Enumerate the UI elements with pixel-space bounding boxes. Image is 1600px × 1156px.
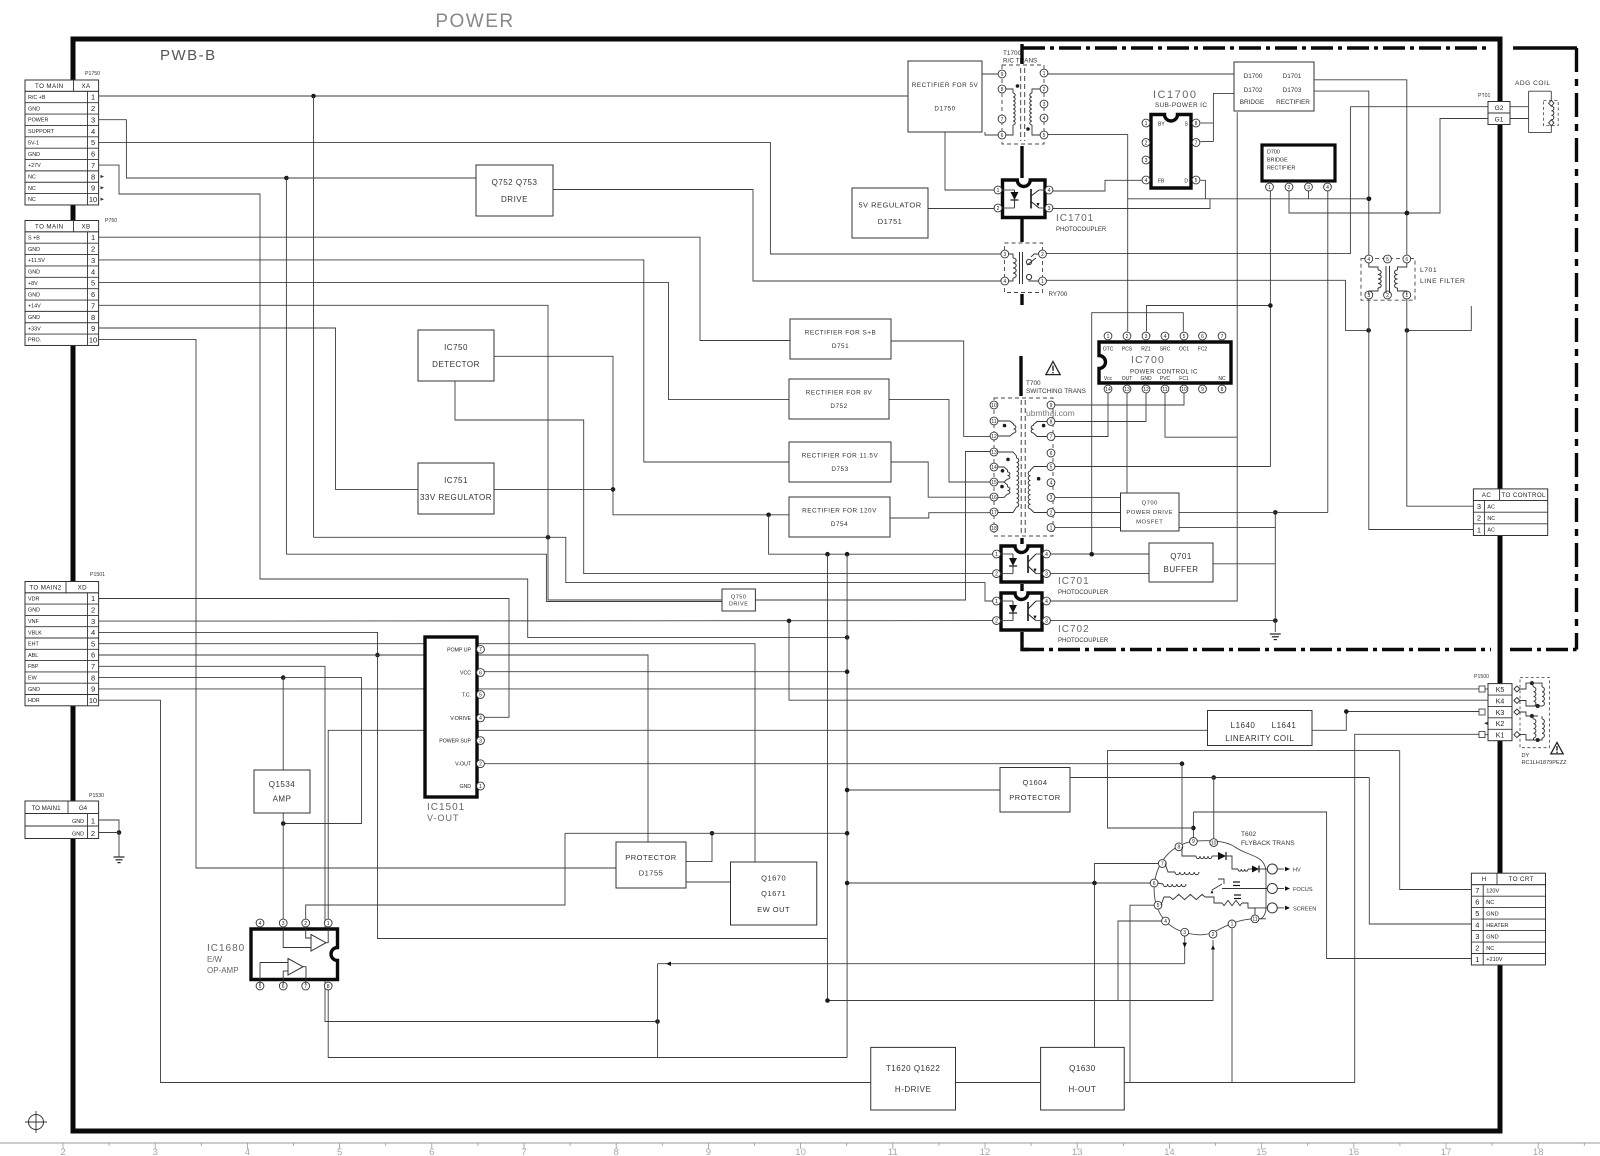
wire IC700 pin13 down bbox=[1126, 393, 1128, 493]
svg-text:DETECTOR: DETECTOR bbox=[432, 360, 480, 369]
IC701 photocoupler bbox=[1001, 546, 1042, 582]
wire XA9 NC stub bbox=[101, 186, 105, 189]
T1620 Q1622 H-DRIVE box bbox=[871, 1047, 956, 1110]
protector D1755 box bbox=[616, 842, 686, 888]
svg-text:1: 1 bbox=[1107, 334, 1110, 340]
svg-text:12: 12 bbox=[1143, 387, 1149, 393]
svg-text:AC: AC bbox=[1487, 504, 1495, 510]
svg-text:L1640: L1640 bbox=[1231, 721, 1256, 730]
svg-text:3: 3 bbox=[153, 1147, 158, 1156]
svg-text:D1702: D1702 bbox=[1244, 87, 1263, 94]
svg-text:2: 2 bbox=[1477, 514, 1481, 523]
wire XD7 FBP right bbox=[99, 666, 658, 1021]
Q1670 Q1671 EW OUT box bbox=[731, 862, 817, 925]
svg-text:2: 2 bbox=[91, 245, 95, 254]
wire RY700 pin1 right bbox=[1046, 280, 1369, 330]
svg-text:16: 16 bbox=[991, 495, 997, 501]
linearity coil L1640 L1641 box bbox=[1208, 711, 1313, 746]
wire G2 down to RY700 pin2 bbox=[1046, 107, 1350, 254]
svg-text:GND: GND bbox=[28, 687, 40, 693]
wire D1750 down to IC1701 bbox=[945, 132, 994, 190]
svg-text:3: 3 bbox=[1043, 102, 1046, 108]
svg-text:2: 2 bbox=[479, 762, 482, 768]
transistors Q752 Q753 DRIVE box bbox=[476, 165, 553, 216]
wire IC750 bottom to IC701 pin2 bbox=[455, 381, 993, 574]
svg-text:D1701: D1701 bbox=[1283, 73, 1302, 80]
svg-text:14: 14 bbox=[1164, 1147, 1175, 1156]
svg-text:RECTIFIER: RECTIFIER bbox=[1276, 99, 1310, 106]
svg-text:+33V: +33V bbox=[28, 326, 41, 332]
svg-text:10: 10 bbox=[1181, 387, 1187, 393]
svg-text:2: 2 bbox=[997, 206, 1000, 212]
svg-text:1: 1 bbox=[91, 93, 95, 102]
wire K2 stub bbox=[1484, 722, 1488, 725]
svg-text:4: 4 bbox=[259, 921, 262, 927]
svg-text:P1501: P1501 bbox=[90, 572, 105, 578]
isolation boundary dash-dot bottom bbox=[1022, 648, 1491, 651]
svg-text:GND: GND bbox=[28, 152, 40, 158]
svg-text:VNF: VNF bbox=[28, 619, 39, 625]
bottom ruler bbox=[0, 1142, 1600, 1144]
svg-text:PHOTOCOUPLER: PHOTOCOUPLER bbox=[1056, 227, 1107, 233]
svg-text:5: 5 bbox=[1475, 909, 1479, 918]
wire Q701 out right bbox=[1213, 563, 1275, 565]
svg-text:9: 9 bbox=[1001, 72, 1004, 78]
svg-text:HEATER: HEATER bbox=[1486, 923, 1508, 929]
svg-text:IC1501: IC1501 bbox=[427, 802, 465, 813]
svg-text:Q1534: Q1534 bbox=[269, 780, 296, 789]
svg-text:MOSFET: MOSFET bbox=[1136, 520, 1163, 526]
isolation boundary dash-dot right bbox=[1575, 48, 1578, 650]
wire K1 down to H-OUT bbox=[1124, 734, 1479, 1082]
wire IC750 out down bbox=[494, 356, 789, 515]
svg-text:FOCUS: FOCUS bbox=[1293, 887, 1313, 893]
svg-text:12: 12 bbox=[991, 434, 997, 440]
svg-text:3: 3 bbox=[91, 617, 95, 626]
wire vertical to flyback area bbox=[846, 554, 848, 1057]
svg-text:H-OUT: H-OUT bbox=[1069, 1085, 1097, 1094]
svg-text:OC1: OC1 bbox=[1179, 347, 1190, 353]
svg-text:IC702: IC702 bbox=[1058, 624, 1090, 635]
svg-text:9: 9 bbox=[1192, 839, 1195, 845]
svg-text:SWITCHING TRANS: SWITCHING TRANS bbox=[1026, 388, 1086, 395]
svg-text:BUFFER: BUFFER bbox=[1164, 565, 1199, 574]
svg-text:GND: GND bbox=[28, 315, 40, 321]
svg-text:2: 2 bbox=[60, 1147, 65, 1156]
svg-text:1: 1 bbox=[1050, 525, 1053, 531]
svg-text:3: 3 bbox=[1145, 158, 1148, 164]
wire flyback pin6 left bbox=[847, 882, 1150, 884]
svg-text:2: 2 bbox=[995, 571, 998, 577]
svg-text:PCS: PCS bbox=[1122, 347, 1133, 353]
svg-text:POWER: POWER bbox=[435, 11, 514, 32]
rectifier D1750 box bbox=[908, 61, 982, 132]
wire horizontal 1057 bbox=[658, 1057, 848, 1059]
svg-text:OTC: OTC bbox=[1103, 347, 1114, 353]
svg-text:5: 5 bbox=[259, 984, 262, 990]
svg-text:RY700: RY700 bbox=[1049, 291, 1068, 298]
svg-text:PVC: PVC bbox=[1160, 376, 1171, 382]
flyback pin11 wire bbox=[1248, 908, 1255, 915]
svg-text:OUT: OUT bbox=[1122, 376, 1133, 382]
wire L701 pin1 to AC3 bbox=[1407, 299, 1474, 506]
svg-text:FC1: FC1 bbox=[1179, 376, 1189, 382]
svg-text:7: 7 bbox=[1221, 334, 1224, 340]
svg-text:1: 1 bbox=[91, 233, 95, 242]
svg-text:DRIVE: DRIVE bbox=[501, 195, 528, 204]
svg-text:GND: GND bbox=[72, 819, 84, 825]
wire XA10 NC stub bbox=[101, 198, 105, 201]
svg-text:6: 6 bbox=[91, 651, 95, 660]
wire Q1630 up bbox=[1094, 883, 1096, 1047]
svg-text:K5: K5 bbox=[1496, 687, 1505, 694]
wire XB9 +33V to IC751 bbox=[99, 328, 418, 489]
svg-text:PHOTOCOUPLER: PHOTOCOUPLER bbox=[1058, 590, 1109, 596]
svg-text:POWER: POWER bbox=[28, 118, 48, 124]
svg-text:2: 2 bbox=[91, 829, 95, 838]
wire IC1701 pin4 to IC1700 FB bbox=[1053, 180, 1144, 191]
svg-text:5: 5 bbox=[337, 1147, 342, 1156]
svg-text:1: 1 bbox=[327, 921, 330, 927]
svg-text:7: 7 bbox=[91, 161, 95, 170]
svg-text:Q1671: Q1671 bbox=[761, 889, 786, 898]
svg-text:GND: GND bbox=[1486, 934, 1498, 940]
wire IC1680 pin8 down bbox=[328, 990, 657, 1058]
svg-text:7: 7 bbox=[1050, 434, 1053, 440]
svg-text:7: 7 bbox=[1001, 117, 1004, 123]
svg-text:EW OUT: EW OUT bbox=[757, 905, 790, 914]
wire heater to H4 bbox=[1369, 778, 1472, 925]
svg-text:K4: K4 bbox=[1496, 698, 1505, 705]
svg-text:D753: D753 bbox=[831, 466, 848, 473]
svg-text:18: 18 bbox=[1533, 1147, 1544, 1156]
svg-text:TO CONTROL: TO CONTROL bbox=[1501, 492, 1546, 499]
warning triangle T700 bbox=[1046, 362, 1060, 375]
wire XA1 R/C+B to D1750 bbox=[99, 95, 908, 97]
wire ADG G2 bbox=[1510, 106, 1529, 108]
svg-text:POWER DRIVE: POWER DRIVE bbox=[1126, 510, 1173, 516]
svg-text:POWER SUP: POWER SUP bbox=[439, 739, 471, 745]
svg-text:4: 4 bbox=[1048, 188, 1051, 194]
svg-text:3: 3 bbox=[1145, 334, 1148, 340]
svg-text:V-DRIVE: V-DRIVE bbox=[450, 716, 471, 722]
svg-text:17: 17 bbox=[1441, 1147, 1452, 1156]
wire IC1700 pin7 to bridge bbox=[1201, 141, 1214, 143]
svg-text:3: 3 bbox=[91, 115, 95, 124]
svg-text:Q1630: Q1630 bbox=[1069, 1064, 1096, 1073]
svg-text:11: 11 bbox=[888, 1147, 898, 1156]
svg-text:4: 4 bbox=[91, 267, 95, 276]
wire XB3 +11.5V to D753 bbox=[99, 260, 789, 462]
svg-text:4: 4 bbox=[1164, 334, 1167, 340]
flyback focus pot bbox=[1170, 894, 1205, 899]
svg-text:PHOTOCOUPLER: PHOTOCOUPLER bbox=[1058, 638, 1109, 644]
svg-text:10: 10 bbox=[89, 696, 97, 705]
wire Q700 out right bbox=[1179, 511, 1328, 513]
svg-text:RECTIFIER FOR 120V: RECTIFIER FOR 120V bbox=[802, 508, 877, 515]
wire flyback pin4 left bbox=[1118, 921, 1162, 1001]
ground P1530 bbox=[114, 856, 125, 858]
svg-text:RECTIFIER: RECTIFIER bbox=[1267, 166, 1296, 172]
wire XB5 +8V to D752 bbox=[99, 283, 789, 400]
svg-text:R/C +B: R/C +B bbox=[28, 95, 46, 101]
RY700 relay bbox=[1005, 243, 1043, 293]
wire flyback pin1 down bbox=[1231, 928, 1233, 1082]
svg-text:4: 4 bbox=[1145, 178, 1148, 184]
svg-text:4: 4 bbox=[1043, 116, 1046, 122]
svg-text:SUPPORT: SUPPORT bbox=[28, 129, 55, 135]
svg-text:5V REGULATOR: 5V REGULATOR bbox=[858, 200, 921, 209]
svg-text:13: 13 bbox=[1072, 1147, 1083, 1156]
wire H-DRIVE to H-OUT bbox=[956, 1082, 1041, 1084]
svg-text:6: 6 bbox=[1001, 133, 1004, 139]
wire flyback pin5 left bbox=[1130, 905, 1154, 1082]
isolation boundary vertical segments bbox=[1020, 44, 1023, 64]
svg-text:NC: NC bbox=[1487, 516, 1495, 522]
wire XD4 VBLK down bbox=[99, 632, 378, 655]
svg-text:6: 6 bbox=[91, 290, 95, 299]
wire D700 pin1 down bbox=[1269, 191, 1271, 467]
svg-text:5: 5 bbox=[1386, 257, 1389, 263]
wire flyback pin8 up bbox=[1181, 764, 1183, 843]
wire XB1 S+B to D751 bbox=[99, 237, 790, 340]
wire 120V branch bbox=[1108, 751, 1400, 828]
svg-text:FB: FB bbox=[1158, 179, 1165, 185]
svg-text:H: H bbox=[1482, 876, 1487, 883]
wire T1700 pin6 to D1750 bbox=[985, 132, 998, 135]
svg-text:BRIDGE: BRIDGE bbox=[1240, 99, 1265, 106]
wire D751 out to T700 pin12 bbox=[891, 341, 990, 436]
wire L701 pin1 branch bbox=[1407, 306, 1471, 330]
wire G2 line bbox=[1350, 106, 1488, 108]
T700 winding 15-16 bbox=[998, 482, 1008, 487]
wire POWER to Q750 bbox=[286, 554, 722, 601]
svg-text:6: 6 bbox=[1475, 898, 1479, 907]
wire T700 pin2 to Q700 bbox=[1055, 512, 1121, 514]
svg-text:7: 7 bbox=[91, 662, 95, 671]
bridge rectifier D700 box bbox=[1262, 145, 1335, 181]
svg-text:9: 9 bbox=[91, 324, 95, 333]
flyback HV coil and diode D2 bbox=[1238, 869, 1248, 871]
svg-text:D752: D752 bbox=[830, 403, 847, 410]
Q1534 AMP box bbox=[254, 770, 310, 813]
svg-text:NC: NC bbox=[28, 175, 36, 181]
svg-text:3: 3 bbox=[1475, 932, 1479, 941]
svg-text:Q700: Q700 bbox=[1142, 501, 1158, 507]
svg-text:D1703: D1703 bbox=[1283, 87, 1302, 94]
svg-text:2: 2 bbox=[1475, 943, 1479, 952]
svg-text:14: 14 bbox=[991, 465, 997, 471]
svg-text:2: 2 bbox=[995, 618, 998, 624]
wire IC751 out bbox=[494, 488, 613, 490]
wire Q1604 branch down flyback pin10 bbox=[1213, 778, 1215, 839]
wire riser into bridge bbox=[1213, 93, 1234, 141]
svg-text:+11.5V: +11.5V bbox=[28, 258, 45, 264]
wire IC1700 S to bridge bbox=[1201, 122, 1214, 124]
wire K1 connector square bbox=[1479, 732, 1485, 738]
wire XB10 PRO down bbox=[99, 339, 616, 868]
svg-text:1: 1 bbox=[479, 784, 482, 790]
wire IC700 pin11 down bbox=[1165, 393, 1237, 438]
wire T700 pin3 to Q700 bbox=[1055, 496, 1121, 498]
svg-text:SUB-POWER IC: SUB-POWER IC bbox=[1155, 102, 1207, 109]
svg-text:GND: GND bbox=[28, 608, 40, 614]
svg-text:RECTIFIER FOR 11.5V: RECTIFIER FOR 11.5V bbox=[802, 453, 879, 460]
svg-text:1: 1 bbox=[1268, 185, 1271, 191]
wire T700 pin5 right bbox=[1055, 466, 1271, 468]
flyback secondary coils bbox=[1175, 872, 1199, 875]
svg-text:LINE FILTER: LINE FILTER bbox=[1420, 278, 1465, 285]
svg-text:PROTECTOR: PROTECTOR bbox=[1009, 793, 1061, 802]
svg-text:6: 6 bbox=[91, 150, 95, 159]
svg-text:T.C.: T.C. bbox=[462, 693, 471, 699]
svg-text:GND: GND bbox=[459, 784, 471, 790]
svg-text:FBP: FBP bbox=[28, 664, 39, 670]
svg-text:Q752 Q753: Q752 Q753 bbox=[492, 178, 538, 187]
svg-text:EHT: EHT bbox=[28, 642, 39, 648]
op-amp U1A triangle bbox=[311, 935, 326, 952]
svg-text:5: 5 bbox=[1195, 178, 1198, 184]
svg-text:4: 4 bbox=[1045, 552, 1048, 558]
svg-text:1: 1 bbox=[997, 188, 1000, 194]
wire line 937 bbox=[378, 655, 828, 939]
svg-text:7: 7 bbox=[1475, 886, 1479, 895]
svg-text:5: 5 bbox=[1050, 464, 1053, 470]
svg-text:7: 7 bbox=[1161, 861, 1164, 867]
wire T700 pin9 to IC700 FC1 bbox=[1055, 393, 1184, 405]
svg-text:IC1680: IC1680 bbox=[207, 943, 245, 954]
svg-text:11: 11 bbox=[1162, 387, 1167, 393]
svg-text:4: 4 bbox=[1367, 257, 1370, 263]
wire IC700 pin5 up left down bbox=[1092, 313, 1184, 555]
svg-text:HV: HV bbox=[1293, 868, 1301, 874]
svg-text:VCC: VCC bbox=[460, 671, 471, 677]
svg-text:3: 3 bbox=[1045, 618, 1048, 624]
svg-text:9: 9 bbox=[91, 685, 95, 694]
svg-text:1: 1 bbox=[91, 817, 95, 826]
svg-text:T1620 Q1622: T1620 Q1622 bbox=[886, 1064, 940, 1073]
svg-text:8: 8 bbox=[327, 984, 330, 990]
svg-text:G4: G4 bbox=[79, 805, 88, 812]
svg-text:R/C TRANS: R/C TRANS bbox=[1003, 58, 1037, 65]
svg-text:2: 2 bbox=[1043, 87, 1046, 93]
svg-text:Q750: Q750 bbox=[731, 594, 747, 600]
wire IC1680 pin1 up to linearity coil bbox=[328, 730, 1207, 919]
flyback capacitors bbox=[1233, 881, 1240, 883]
svg-text:ABL: ABL bbox=[28, 653, 38, 659]
connector AC TO CONTROL bbox=[1473, 489, 1547, 536]
flyback SCREEN output bbox=[1267, 903, 1277, 913]
svg-text:IC751: IC751 bbox=[444, 476, 468, 485]
svg-text:VBLK: VBLK bbox=[28, 630, 42, 636]
svg-text:FC2: FC2 bbox=[1198, 347, 1208, 353]
wire XD5 EHT to EW OUT top bbox=[99, 644, 755, 862]
wire XA1 branch down bbox=[313, 96, 315, 537]
svg-text:SCREEN: SCREEN bbox=[1293, 906, 1316, 912]
wire IC700 pin3 up to D700 net bbox=[1147, 306, 1271, 332]
svg-text:10: 10 bbox=[991, 403, 997, 409]
svg-text:4: 4 bbox=[1003, 279, 1006, 285]
rectifier D753 box bbox=[789, 442, 891, 482]
T700 winding 14-15 bbox=[998, 467, 1008, 472]
svg-text:3: 3 bbox=[1477, 502, 1481, 511]
IC700 POWER CONTROL IC bbox=[1099, 342, 1231, 383]
svg-text:PRO.: PRO. bbox=[28, 338, 41, 344]
svg-text:T1700: T1700 bbox=[1003, 50, 1022, 57]
ground near IC702 bbox=[1270, 633, 1281, 635]
svg-text:1: 1 bbox=[1477, 525, 1481, 534]
svg-text:4: 4 bbox=[1050, 480, 1053, 486]
svg-text:FLYBACK TRANS: FLYBACK TRANS bbox=[1241, 840, 1295, 847]
svg-text:IC750: IC750 bbox=[444, 343, 468, 352]
svg-text:120V: 120V bbox=[1486, 888, 1499, 894]
svg-text:NC: NC bbox=[28, 197, 36, 203]
svg-text:13: 13 bbox=[1124, 387, 1130, 393]
svg-text:RECTIFIER FOR S+B: RECTIFIER FOR S+B bbox=[805, 330, 877, 337]
svg-text:4: 4 bbox=[1164, 919, 1167, 925]
warning triangle DY bbox=[1551, 743, 1563, 754]
svg-text:7: 7 bbox=[479, 647, 482, 653]
svg-text:TO MAIN1: TO MAIN1 bbox=[31, 805, 61, 812]
wire EW bypass loop bbox=[283, 678, 361, 824]
svg-text:IC1701: IC1701 bbox=[1056, 213, 1094, 224]
IC1680 E/W op-amp bbox=[251, 929, 338, 980]
wire D net line bbox=[1128, 198, 1369, 200]
wire +210V to H1 bbox=[1193, 812, 1472, 959]
wire IC1501 V-OUT right bbox=[484, 763, 1182, 765]
svg-text:GND: GND bbox=[1140, 376, 1152, 382]
op-amp U1B triangle bbox=[288, 959, 303, 976]
svg-text:OP-AMP: OP-AMP bbox=[207, 966, 239, 975]
svg-text:8: 8 bbox=[1050, 419, 1053, 425]
rectifier D754 box bbox=[789, 497, 890, 537]
IC750 DETECTOR box bbox=[418, 330, 494, 381]
wire Q1604 in left bbox=[847, 789, 1000, 791]
svg-text:17: 17 bbox=[991, 510, 997, 516]
svg-text:2: 2 bbox=[91, 104, 95, 113]
wire K3 connector square bbox=[1479, 709, 1485, 715]
svg-text:HDR: HDR bbox=[28, 698, 40, 704]
wire bridge out to L701 pin6 bbox=[1314, 80, 1407, 255]
svg-text:Q1604: Q1604 bbox=[1022, 778, 1047, 787]
wire K4 branch from VNF bbox=[789, 621, 1488, 700]
svg-text:10: 10 bbox=[1211, 840, 1217, 846]
wire Q1534 to IC1680 pin3 bbox=[282, 812, 284, 920]
svg-text:XD: XD bbox=[78, 584, 88, 591]
svg-text:6: 6 bbox=[1405, 257, 1408, 263]
rectifier D751 box bbox=[790, 319, 891, 359]
svg-text:L1641: L1641 bbox=[1272, 721, 1297, 730]
svg-text:13: 13 bbox=[991, 450, 997, 456]
svg-text:6: 6 bbox=[429, 1147, 434, 1156]
svg-text:GND: GND bbox=[28, 106, 40, 112]
svg-text:3: 3 bbox=[282, 921, 285, 927]
svg-text:9: 9 bbox=[1050, 403, 1053, 409]
svg-text:AC: AC bbox=[1482, 492, 1492, 499]
svg-text:NC: NC bbox=[1486, 946, 1494, 952]
svg-text:1: 1 bbox=[91, 594, 95, 603]
svg-text:15: 15 bbox=[991, 480, 997, 486]
svg-text:2: 2 bbox=[1212, 932, 1215, 938]
svg-text:D1700: D1700 bbox=[1244, 73, 1263, 80]
svg-text:1: 1 bbox=[995, 599, 998, 605]
svg-text:IC701: IC701 bbox=[1058, 576, 1090, 587]
svg-text:PROTECTOR: PROTECTOR bbox=[625, 853, 677, 862]
wire XD9 GND to K5 bbox=[99, 688, 1479, 690]
wire EW to flyback pin2 bbox=[828, 940, 1214, 1001]
wire D1755 right riser bbox=[686, 833, 712, 861]
wire D754 out to T700 pin17 bbox=[890, 513, 990, 518]
